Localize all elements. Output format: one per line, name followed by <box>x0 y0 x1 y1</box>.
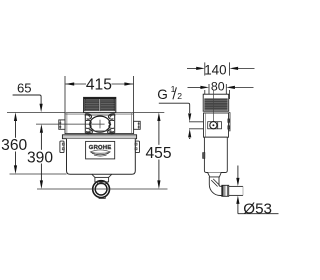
side view: right bracket strip <box>228 113 230 131</box>
reference line bottom-left (tank bottom level) <box>10 173 67 175</box>
front view: right spring clip <box>108 114 115 134</box>
side view: outlet sleeve <box>222 185 229 196</box>
G 1/2 lower arrow <box>188 129 191 139</box>
reference line outlet centre (390/455 bottom) <box>37 188 168 190</box>
svg-text:G: G <box>157 87 168 102</box>
front view: tank lid rim band <box>62 135 136 139</box>
svg-text:390: 390 <box>27 149 53 166</box>
side view: G 1/2 inlet circle <box>210 122 217 129</box>
side view: upper valve body <box>204 113 229 137</box>
dimension 140 <box>187 62 255 99</box>
front view: outlet sub-neck <box>97 182 106 184</box>
front view: left spring clip <box>85 114 92 134</box>
svg-text:455: 455 <box>145 145 171 162</box>
side view: outlet elbow <box>209 177 222 196</box>
front view: lower right bracket <box>135 141 140 153</box>
svg-text:360: 360 <box>1 137 27 154</box>
front view: outlet neck <box>95 177 109 182</box>
side view: inlet boss <box>208 122 222 129</box>
reference line to ellipse centre (390 top) <box>36 123 105 125</box>
svg-text:140: 140 <box>204 62 226 77</box>
dimension 80 <box>188 84 254 99</box>
svg-text:Ø53: Ø53 <box>243 200 272 217</box>
front view: GROHE logo plate <box>86 141 115 159</box>
svg-text:80: 80 <box>211 80 225 94</box>
label G 1/2 <box>157 84 182 102</box>
front view: tank body <box>67 139 136 175</box>
front view: upper right mounting bracket <box>134 121 141 129</box>
front view: clip cross lines <box>85 114 116 116</box>
dimension 390 <box>40 124 43 189</box>
side view: inlet centre line <box>212 90 214 126</box>
side view: outlet pipe <box>229 186 243 195</box>
dimension 415 <box>65 76 134 112</box>
front view: valve block <box>65 113 134 134</box>
svg-text:65: 65 <box>17 81 32 96</box>
reference line top-left (tank top level) <box>7 111 65 113</box>
svg-text:2: 2 <box>177 91 182 101</box>
svg-text:GROHE: GROHE <box>89 145 112 151</box>
side view: shaft cap hatched <box>203 94 229 111</box>
front view: lower left bracket <box>60 141 64 153</box>
svg-text:415: 415 <box>86 77 112 94</box>
side view: left clip block <box>203 153 205 159</box>
front view: outlet flange <box>92 174 112 177</box>
front view: flush outlet circle <box>93 181 110 198</box>
G 1/2 tangent lines <box>189 121 218 123</box>
front view: upper left mounting bracket <box>59 120 65 129</box>
reference line right of front view (tank top level) <box>134 111 165 113</box>
dimension 455 <box>157 112 160 189</box>
front view: outlet lower stub <box>99 196 105 199</box>
front view: inspection ellipse <box>90 116 110 132</box>
dimension 65 leader <box>13 95 43 112</box>
side view: outlet flange <box>208 173 222 177</box>
dimension 360 <box>14 112 17 174</box>
ellipse centre tick <box>99 120 101 129</box>
side view: lower tank body <box>204 137 227 172</box>
dimension diameter 53 <box>236 166 278 214</box>
G 1/2 leader <box>159 103 192 122</box>
front view: shaft cap hatched <box>84 97 116 112</box>
